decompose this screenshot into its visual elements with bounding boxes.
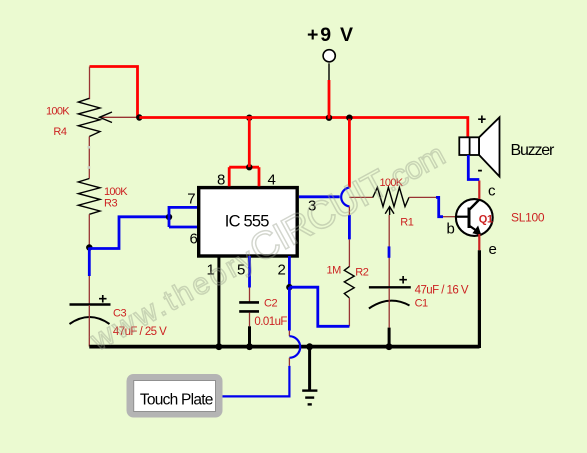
svg-text:C2: C2 — [264, 298, 277, 310]
transistor Q1 circle — [456, 199, 493, 236]
wire: blue corner to Q1 base — [436, 197, 443, 216]
wire: C2 top lead — [249, 288, 251, 302]
svg-text:+9 V: +9 V — [307, 24, 355, 46]
node: junction pin 2 — [286, 284, 292, 290]
wire: C2 bottom lead — [249, 313, 251, 327]
capacitor C1 top plate — [369, 286, 411, 288]
node: junction C2/rail — [246, 343, 253, 350]
wire: blue overlay below junction — [88, 248, 91, 277]
wire: blue down to touch plate wire — [220, 366, 289, 397]
svg-text:100K: 100K — [46, 106, 70, 118]
wire: pin8-pin4 red bridge — [229, 166, 259, 169]
capacitor C2 bottom plate — [239, 310, 259, 313]
touch plate box — [127, 374, 223, 418]
wire: red drop from rail to hop — [348, 119, 351, 188]
wire hop over ground rail — [289, 336, 300, 358]
wire: R2 bottom lead — [348, 298, 350, 326]
wire: R4 top lead — [89, 67, 91, 100]
svg-text:Q1: Q1 — [479, 213, 493, 225]
Q1 collector diagonal — [469, 199, 480, 210]
Q1 base bar — [468, 208, 471, 229]
svg-text:100K: 100K — [104, 186, 128, 198]
svg-text:4: 4 — [268, 172, 276, 189]
capacitor C2 top plate — [239, 301, 259, 304]
svg-text:R3: R3 — [104, 198, 117, 210]
svg-text:Touch Plate: Touch Plate — [140, 392, 213, 409]
svg-text:R4: R4 — [53, 126, 66, 138]
capacitor C1 bottom curved plate — [369, 301, 410, 309]
svg-text:R2: R2 — [355, 267, 368, 279]
wire: emitter red lead — [478, 234, 480, 250]
wire: blue overlay above R2 — [348, 215, 351, 239]
wire: C1 bottom lead — [388, 288, 390, 328]
svg-text:2: 2 — [278, 262, 286, 279]
wire: red top-left loop from R4 top to +V rail — [90, 67, 138, 118]
resistor R3 100K — [78, 179, 100, 215]
wire: R3 bottom lead down to C3 — [88, 214, 90, 304]
svg-text:0.01uF: 0.01uF — [254, 316, 287, 328]
node: junction pins 6/7 — [166, 214, 172, 220]
wire: pin 4 red stub — [258, 167, 261, 186]
svg-text:R1: R1 — [400, 216, 413, 228]
wire: base lead maroon — [443, 216, 456, 218]
wire: blue overlay on wiper lead — [388, 246, 391, 257]
node: junction pin1/rail — [216, 343, 223, 350]
wire: +9V top rail — [139, 118, 468, 138]
svg-text:+: + — [399, 272, 408, 289]
wire: lead hop to R2 (maroon) — [348, 207, 350, 216]
node: junction ground/rail — [306, 343, 313, 350]
node: junction R3/C3/pins 6-7 — [86, 244, 92, 250]
node: junction supply to pins 8/4 — [246, 164, 252, 170]
node: junction +9V terminal on rail — [326, 115, 332, 121]
Q1 base lead inside — [456, 216, 470, 218]
wire: pin 3 blue output — [299, 195, 340, 198]
svg-text:Buzzer: Buzzer — [511, 142, 555, 159]
svg-text:8: 8 — [217, 172, 225, 189]
svg-text:C1: C1 — [415, 298, 428, 310]
wire: pin 2 blue stub — [288, 256, 291, 287]
wire hop over pin-3 line — [341, 188, 349, 207]
artifact handle marks on lead — [88, 146, 91, 149]
node: junction C1/rail — [386, 343, 393, 350]
svg-text:1M: 1M — [327, 265, 342, 277]
wire: R1 right lead to base — [409, 196, 436, 198]
buzzer horn — [479, 117, 499, 176]
Q1 emitter diagonal with arrow — [469, 226, 477, 232]
wire: R2 top lead — [348, 239, 350, 267]
resistor R2 1M — [344, 267, 354, 298]
svg-text:6: 6 — [190, 231, 198, 248]
power terminal +9 V circle — [323, 50, 335, 62]
svg-text:+: + — [478, 111, 487, 128]
wire: ground rail (bottom) — [89, 345, 479, 349]
buzzer LS1 body — [459, 137, 479, 155]
svg-text:e: e — [489, 241, 497, 258]
ground symbol — [308, 347, 311, 390]
wire: maroon stub below rail hop — [288, 358, 290, 366]
wire: maroon stub above rail hop — [288, 331, 290, 337]
wire: pin 8 red stub — [228, 167, 231, 186]
op-amp/timer IC U1 555 body — [199, 188, 298, 256]
wire: blue from junction to pins 6/7 — [89, 217, 169, 249]
resistor R4 100K (potentiometer) — [78, 98, 100, 136]
svg-text:SL100: SL100 — [511, 211, 545, 225]
node: junction R1/R2 branch on rail — [346, 115, 352, 121]
wire: pin 2 to R2 bottom — [289, 287, 349, 326]
svg-text:b: b — [447, 221, 455, 238]
svg-text:c: c — [488, 183, 496, 200]
wire: C1 black to rail — [388, 328, 391, 347]
wire: pin 1 to ground — [217, 256, 220, 347]
node: junction IC supply on +V rail — [246, 115, 252, 121]
resistor R1 100K (preset) — [349, 196, 372, 198]
svg-text:-: - — [478, 162, 483, 179]
wire: buzzer minus blue to collector — [468, 155, 479, 180]
wire: red supply drop to IC — [248, 118, 251, 168]
wire: C2 black to rail — [248, 326, 251, 346]
capacitor C3 bottom curved plate — [70, 317, 110, 324]
wire: collector red lead — [478, 181, 480, 200]
R1 wiper arrow (up) — [389, 208, 391, 215]
svg-text:7: 7 — [187, 190, 195, 207]
svg-text:47uF / 16 V: 47uF / 16 V — [415, 285, 469, 297]
wire: C3 bottom lead to ground rail — [88, 305, 90, 347]
node: junction R4 wiper / +V rail — [136, 114, 142, 120]
wire: R1 wiper lead down — [388, 215, 390, 287]
wire: emitter black to ground rail — [478, 250, 481, 348]
capacitor C3 top plate — [70, 303, 111, 305]
R4 wiper arrow — [101, 116, 139, 118]
wire: pin 5 blue stub — [248, 256, 251, 288]
buzzer divider — [469, 137, 471, 155]
wire: pin 7 stub — [169, 207, 199, 227]
wire: terminal red drop — [328, 80, 331, 119]
wire: terminal black stub — [328, 63, 330, 80]
wire: pin 6 stub — [169, 226, 199, 229]
wire: R4 to R3 lead — [88, 137, 90, 179]
wire: pin 2 down to touch plate — [288, 287, 291, 330]
